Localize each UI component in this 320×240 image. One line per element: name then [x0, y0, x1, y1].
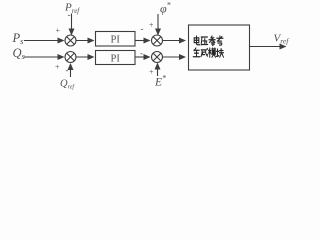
- minus sign at S2 horizontal input: [141, 24, 144, 34]
- PI controller block PI1: [96, 32, 136, 47]
- voltage reference generation block: [189, 25, 250, 70]
- wire E* up into S4: [157, 64, 159, 77]
- svg-text:Ps: Ps: [12, 31, 25, 46]
- glyph kao: [217, 36, 223, 45]
- glyph kuai: [216, 49, 223, 58]
- input label Q_s: [13, 46, 26, 61]
- wire S3 to PI block PI2: [76, 56, 94, 58]
- svg-text:+: +: [149, 21, 154, 30]
- glyph cheng: [201, 48, 208, 56]
- svg-text:-: -: [66, 65, 69, 75]
- block text line 1: dian ya can kao (drawn glyphs): [194, 36, 223, 46]
- block text line 2: sheng cheng mo kuai (drawn glyphs): [193, 48, 223, 57]
- wire P_ref down into S1: [71, 14, 73, 35]
- reference label P_ref: [64, 2, 80, 16]
- svg-text:+: +: [149, 68, 154, 77]
- summing junction S1: [65, 35, 76, 46]
- output wire V_ref: [250, 46, 286, 48]
- glyph can: [209, 36, 215, 46]
- summing junction S3: [65, 52, 76, 63]
- wire phi* down into S2: [157, 14, 159, 35]
- minus sign at S3 vertical input: [66, 65, 69, 75]
- reference label phi*: [160, 1, 171, 16]
- svg-text:-: -: [141, 24, 144, 34]
- svg-text:Pref: Pref: [64, 2, 80, 16]
- plus sign at S2 vertical input: [149, 21, 154, 30]
- svg-text:PI: PI: [111, 35, 121, 46]
- glyph mo: [209, 48, 216, 57]
- svg-text:+: +: [56, 26, 61, 35]
- wire Q_ref up into S3: [70, 64, 72, 77]
- PI controller block PI2: [96, 51, 136, 65]
- summing junction S4: [152, 52, 163, 63]
- wire P_s to summing junction S1: [24, 40, 64, 42]
- wire S4 to voltage reference block: [163, 56, 186, 58]
- svg-text:-: -: [68, 10, 71, 20]
- wire PI1 to summing junction S2: [135, 40, 150, 42]
- reference label Q_ref: [60, 79, 75, 91]
- svg-text:-: -: [140, 48, 143, 58]
- wire PI2 to summing junction S4: [135, 56, 150, 58]
- plus sign at S3 horizontal input: [55, 63, 60, 72]
- glyph sheng: [193, 48, 200, 57]
- svg-text:+: +: [55, 63, 60, 72]
- svg-text:E*: E*: [154, 74, 166, 89]
- glyph ya: [201, 37, 207, 45]
- input label P_s: [12, 31, 25, 46]
- svg-text:Vref: Vref: [274, 33, 290, 46]
- svg-text:Qs: Qs: [13, 46, 26, 61]
- summing junction S2: [152, 35, 163, 46]
- svg-text:Qref: Qref: [60, 79, 75, 91]
- wire S1 to PI block PI1: [76, 40, 94, 42]
- wire S2 to voltage reference block: [163, 40, 186, 42]
- wire Q_s to summing junction S3: [24, 56, 64, 58]
- output label V_ref: [274, 33, 290, 46]
- svg-text:PI: PI: [111, 54, 121, 65]
- plus sign at S4 vertical input: [149, 68, 154, 77]
- minus sign at S4 horizontal input: [140, 48, 143, 58]
- glyph dian: [194, 36, 199, 45]
- plus sign at S1 horizontal input: [56, 26, 61, 35]
- reference label E*: [154, 74, 166, 89]
- minus sign at S1 vertical input: [68, 10, 71, 20]
- svg-text:φ*: φ*: [160, 1, 171, 16]
